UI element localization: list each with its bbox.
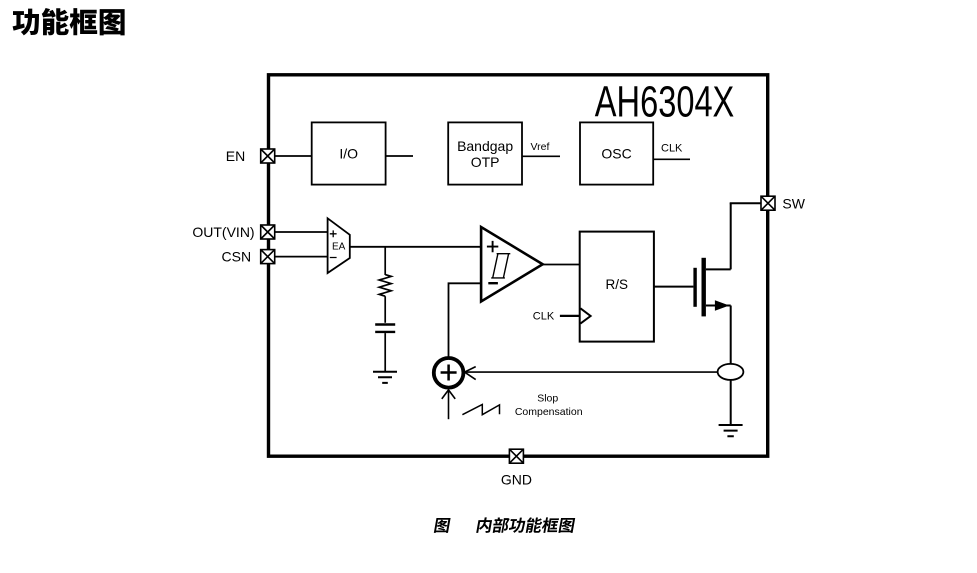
svg-text:AH6304X: AH6304X <box>595 78 735 126</box>
wire comparator minus input <box>449 283 482 357</box>
svg-text:I/O: I/O <box>339 145 358 161</box>
sawtooth waveform symbol <box>462 405 499 415</box>
wire R/S output to gate <box>654 286 694 288</box>
wire CSN to EA - <box>275 256 327 258</box>
wire sense to ground <box>730 380 732 425</box>
block R/S latch <box>580 232 654 342</box>
block I/O <box>312 122 386 184</box>
svg-text:OUT(VIN): OUT(VIN) <box>192 224 254 240</box>
caption 内部功能框图 <box>476 517 575 533</box>
pin CSN <box>261 250 275 264</box>
svg-text:CLK: CLK <box>533 310 555 322</box>
op-amp EA error amplifier <box>328 218 350 273</box>
summing node <box>434 358 464 388</box>
svg-text:SW: SW <box>782 195 805 211</box>
svg-text:OSC: OSC <box>601 145 631 161</box>
svg-text:GND: GND <box>501 471 532 487</box>
block Bandgap OTP <box>448 122 522 184</box>
svg-text:Bandgap: Bandgap <box>457 138 513 154</box>
wire capacitor to ground <box>384 333 386 371</box>
slope compensation arrow into summing node <box>442 390 455 419</box>
wire source down to current sense <box>730 306 732 365</box>
wire Vref output <box>522 155 560 157</box>
caption 图 <box>434 518 451 533</box>
ground (power) <box>719 425 743 436</box>
wire CLK to R/S <box>560 315 580 317</box>
arrowhead into summing node <box>465 367 476 380</box>
wire EA output to comparator + <box>350 246 481 248</box>
svg-text:CSN: CSN <box>222 249 252 265</box>
wire comparator output to R/S <box>543 264 580 266</box>
pin OUT(VIN) <box>261 225 275 239</box>
block OSC <box>580 122 653 184</box>
wire sense to summing node <box>465 371 718 373</box>
capacitor (compensation) <box>375 325 395 332</box>
current sense element <box>718 364 744 380</box>
wire CLK from OSC <box>653 158 690 160</box>
hysteresis symbol <box>491 254 510 278</box>
clock input triangle on R/S <box>580 308 590 323</box>
title 功能框图 <box>13 8 125 35</box>
ground (compensation) <box>373 372 397 383</box>
pin GND <box>509 449 523 463</box>
wire resistor to capacitor <box>384 296 386 323</box>
svg-text:Slop: Slop <box>537 393 558 405</box>
pin EN <box>261 149 275 163</box>
svg-text:CLK: CLK <box>661 143 683 155</box>
svg-text:Vref: Vref <box>531 141 550 153</box>
svg-text:Compensation: Compensation <box>515 406 583 418</box>
main block-diagram border <box>269 75 768 456</box>
wire drain to SW pin <box>730 202 761 204</box>
svg-text:R/S: R/S <box>606 277 629 292</box>
transistor M1 (power NMOS) <box>693 203 730 316</box>
pin SW <box>761 196 775 210</box>
wire OUT(VIN) to EA + <box>275 231 327 233</box>
wire EA output down to resistor <box>384 247 386 275</box>
comparator (PWM, with hysteresis) <box>481 227 543 302</box>
resistor (compensation) <box>379 275 391 297</box>
wire EN to I/O <box>275 155 312 157</box>
svg-text:OTP: OTP <box>471 154 500 170</box>
svg-text:EN: EN <box>226 148 245 164</box>
svg-text:EA: EA <box>332 241 346 252</box>
wire I/O output stub <box>386 155 413 157</box>
